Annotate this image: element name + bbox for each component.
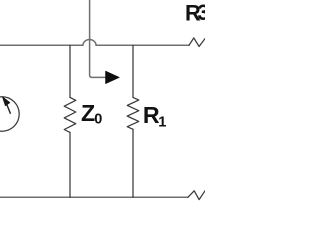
svg-text:1: 1 bbox=[158, 115, 166, 131]
resistor bottom right (cut off at edge) bbox=[188, 191, 205, 200]
svg-text:3: 3 bbox=[197, 0, 205, 25]
wire R1 top lead bbox=[132, 45, 134, 97]
svg-text:Z: Z bbox=[81, 100, 95, 126]
svg-text:0: 0 bbox=[94, 111, 102, 127]
current source I1 arrow shaft bbox=[7, 105, 11, 114]
wire Z0 bottom lead bbox=[69, 132, 71, 197]
resistor Z0 bbox=[64, 97, 76, 132]
current source I1 circle (cut off at left edge) bbox=[0, 97, 19, 131]
wire vertical from top edge down, then right to current arrow bbox=[90, 0, 105, 77]
current direction arrowhead bbox=[106, 71, 120, 84]
wire R1 bottom lead bbox=[132, 129, 134, 197]
wire bottom horizontal bbox=[0, 196, 188, 198]
resistor R3 top right (cut off at edge) bbox=[189, 38, 205, 47]
wire top horizontal with hop over vertical wire bbox=[0, 39, 189, 45]
wire Z0 top lead bbox=[69, 45, 71, 97]
current source I1 arrowhead bbox=[3, 97, 10, 105]
resistor R1 bbox=[127, 97, 139, 129]
